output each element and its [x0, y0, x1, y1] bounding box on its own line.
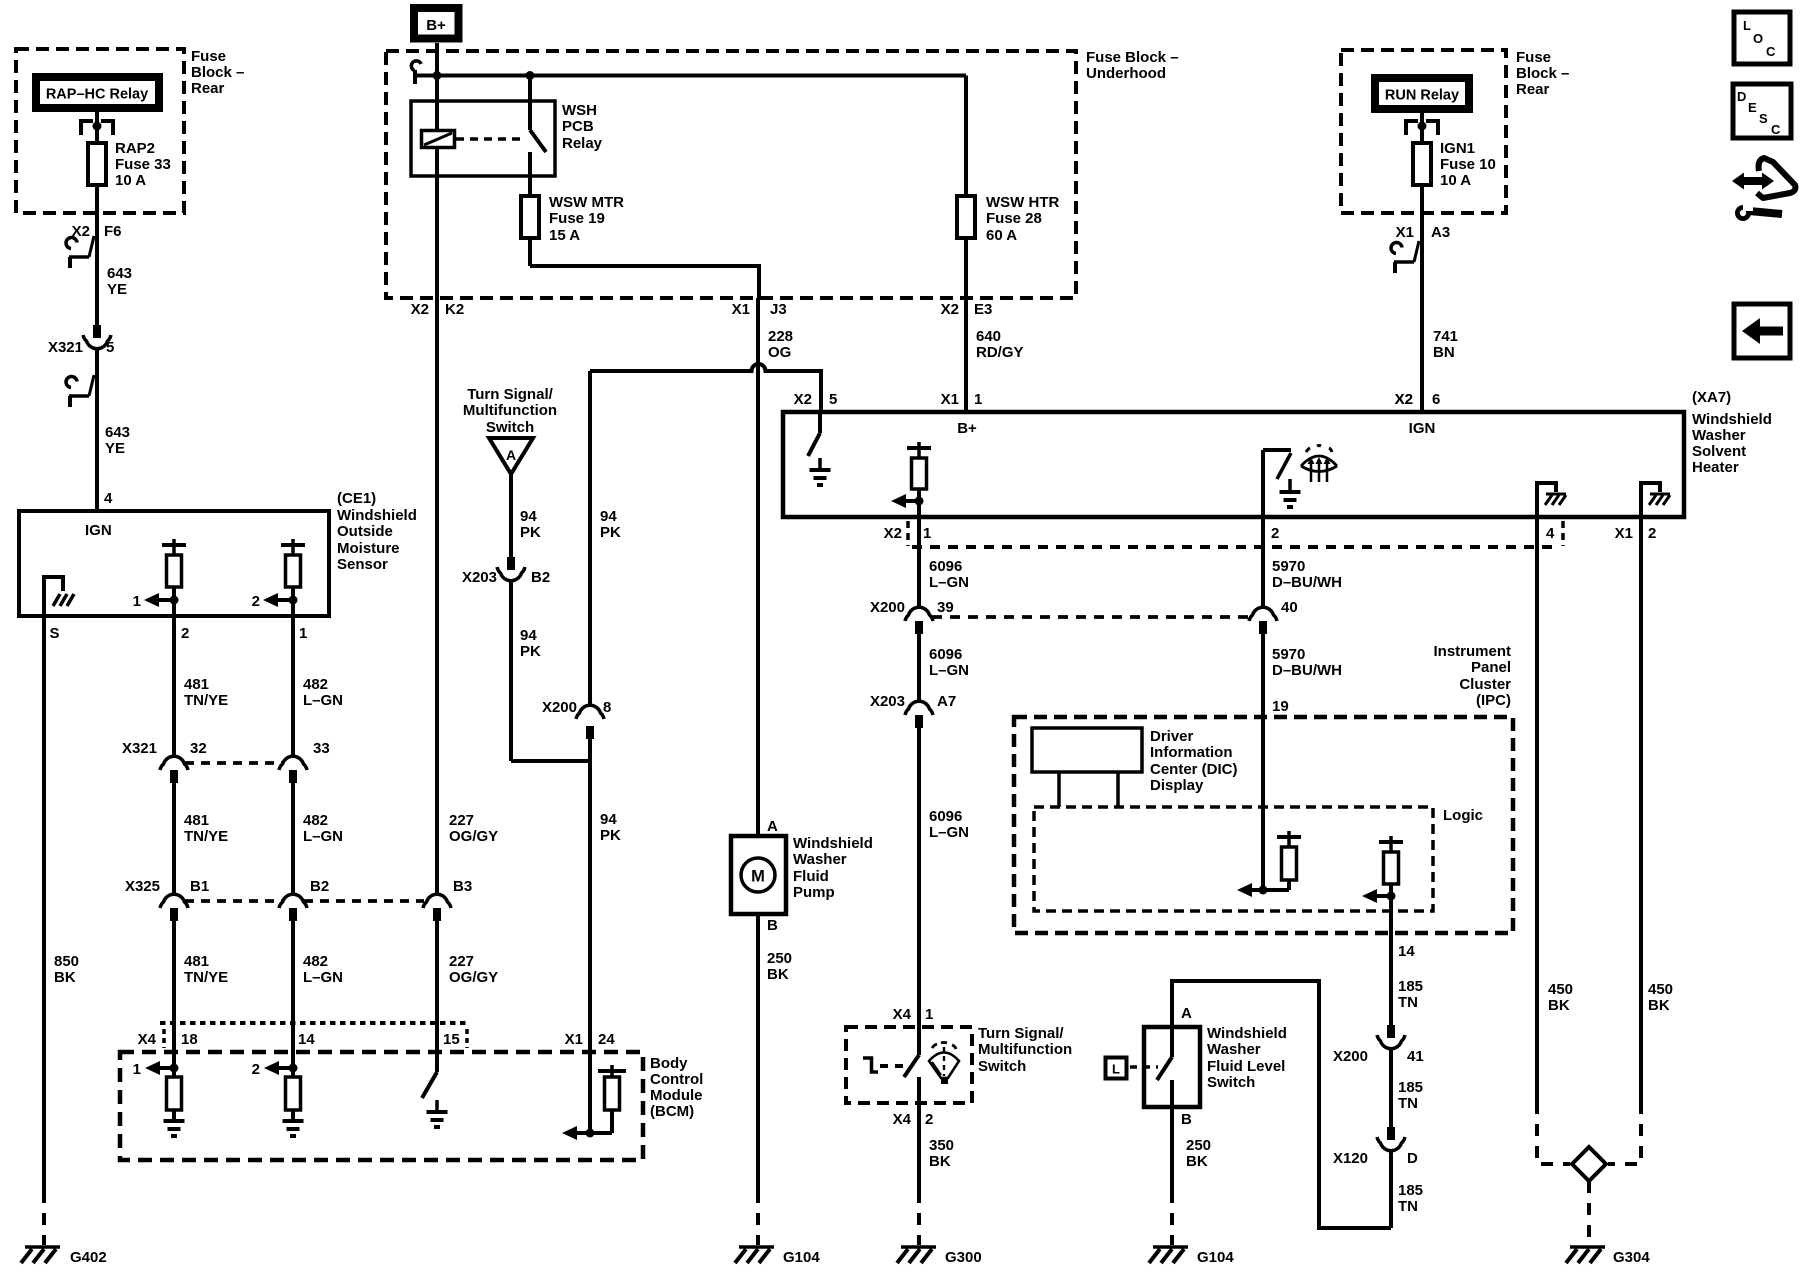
svg-text:6096: 6096 — [929, 646, 962, 663]
svg-text:S: S — [50, 625, 60, 642]
svg-text:J3: J3 — [770, 301, 787, 318]
svg-text:10 A: 10 A — [1440, 172, 1471, 189]
svg-text:Logic: Logic — [1443, 807, 1483, 824]
svg-text:Fuse 33: Fuse 33 — [115, 156, 171, 173]
svg-text:185: 185 — [1398, 1079, 1423, 1096]
svg-text:Multifunction: Multifunction — [463, 402, 557, 419]
svg-text:Turn Signal/: Turn Signal/ — [978, 1025, 1064, 1042]
svg-text:X321: X321 — [48, 339, 83, 356]
svg-text:X1: X1 — [1396, 224, 1414, 241]
svg-text:Fuse 10: Fuse 10 — [1440, 156, 1496, 173]
svg-text:L: L — [1743, 18, 1751, 33]
svg-text:Fluid: Fluid — [793, 868, 829, 885]
svg-text:B3: B3 — [453, 878, 472, 895]
svg-text:481: 481 — [184, 812, 209, 829]
svg-text:1: 1 — [133, 1061, 141, 1078]
svg-text:D–BU/WH: D–BU/WH — [1272, 574, 1342, 591]
svg-text:B: B — [1181, 1111, 1192, 1128]
svg-text:X325: X325 — [125, 878, 160, 895]
svg-text:6096: 6096 — [929, 558, 962, 575]
svg-text:L–GN: L–GN — [929, 824, 969, 841]
svg-text:Outside: Outside — [337, 523, 393, 540]
svg-text:A3: A3 — [1431, 224, 1450, 241]
svg-text:IGN: IGN — [1409, 420, 1436, 437]
svg-text:WSW MTR: WSW MTR — [549, 194, 624, 211]
svg-text:(IPC): (IPC) — [1476, 692, 1511, 709]
svg-text:(BCM): (BCM) — [650, 1103, 694, 1120]
svg-text:BK: BK — [767, 966, 789, 983]
svg-text:8: 8 — [603, 699, 611, 716]
svg-text:L–GN: L–GN — [303, 969, 343, 986]
svg-text:640: 640 — [976, 328, 1001, 345]
svg-text:350: 350 — [929, 1137, 954, 1154]
svg-text:A7: A7 — [937, 693, 956, 710]
svg-text:Fluid Level: Fluid Level — [1207, 1058, 1285, 1075]
svg-text:94: 94 — [520, 627, 537, 644]
svg-text:X1: X1 — [732, 301, 750, 318]
svg-text:5970: 5970 — [1272, 646, 1305, 663]
svg-text:L–GN: L–GN — [929, 574, 969, 591]
svg-text:K2: K2 — [445, 301, 464, 318]
svg-text:1: 1 — [133, 593, 141, 610]
svg-text:O: O — [1753, 31, 1763, 46]
svg-text:M: M — [751, 868, 765, 886]
svg-text:94: 94 — [520, 508, 537, 525]
svg-text:RD/GY: RD/GY — [976, 344, 1024, 361]
svg-text:TN/YE: TN/YE — [184, 692, 228, 709]
svg-text:Multifunction: Multifunction — [978, 1041, 1072, 1058]
svg-text:G304: G304 — [1613, 1249, 1650, 1266]
svg-text:2: 2 — [1648, 525, 1656, 542]
svg-text:X2: X2 — [794, 391, 812, 408]
svg-text:643: 643 — [107, 265, 132, 282]
svg-text:32: 32 — [190, 740, 207, 757]
svg-text:Control: Control — [650, 1071, 703, 1088]
svg-text:481: 481 — [184, 676, 209, 693]
svg-text:D–BU/WH: D–BU/WH — [1272, 662, 1342, 679]
svg-text:BN: BN — [1433, 344, 1455, 361]
svg-text:Rear: Rear — [1516, 81, 1550, 98]
svg-text:185: 185 — [1398, 978, 1423, 995]
svg-text:A: A — [1181, 1005, 1192, 1022]
svg-text:Windshield: Windshield — [1207, 1025, 1287, 1042]
svg-text:YE: YE — [105, 440, 125, 457]
svg-text:5: 5 — [106, 339, 114, 356]
svg-text:Block –: Block – — [191, 64, 244, 81]
svg-text:IGN: IGN — [85, 522, 112, 539]
svg-text:X4: X4 — [893, 1111, 912, 1128]
svg-text:BK: BK — [1548, 997, 1570, 1014]
svg-text:TN/YE: TN/YE — [184, 969, 228, 986]
svg-text:L–GN: L–GN — [303, 692, 343, 709]
svg-text:PCB: PCB — [562, 118, 594, 135]
svg-text:Sensor: Sensor — [337, 556, 388, 573]
svg-text:G104: G104 — [1197, 1249, 1234, 1266]
svg-text:L: L — [1112, 1062, 1120, 1077]
svg-text:A: A — [506, 447, 516, 463]
svg-text:94: 94 — [600, 508, 617, 525]
svg-text:Rear: Rear — [191, 80, 225, 97]
svg-text:S: S — [1759, 111, 1768, 126]
svg-text:Block –: Block – — [1516, 65, 1569, 82]
svg-text:OG/GY: OG/GY — [449, 969, 498, 986]
svg-text:Windshield: Windshield — [793, 835, 873, 852]
svg-text:2: 2 — [181, 625, 189, 642]
svg-text:15: 15 — [443, 1031, 460, 1048]
svg-text:33: 33 — [313, 740, 330, 757]
svg-text:250: 250 — [1186, 1137, 1211, 1154]
svg-text:X1: X1 — [565, 1031, 583, 1048]
svg-text:X4: X4 — [138, 1031, 157, 1048]
svg-text:Switch: Switch — [978, 1058, 1026, 1075]
svg-text:Driver: Driver — [1150, 728, 1194, 745]
svg-text:60 A: 60 A — [986, 227, 1017, 244]
svg-text:14: 14 — [298, 1031, 315, 1048]
svg-text:Fuse: Fuse — [1516, 49, 1551, 66]
svg-text:Panel: Panel — [1471, 659, 1511, 676]
svg-text:Center (DIC): Center (DIC) — [1150, 761, 1238, 778]
svg-text:X4: X4 — [893, 1006, 912, 1023]
svg-text:X2: X2 — [1395, 391, 1413, 408]
svg-text:X203: X203 — [462, 569, 497, 586]
svg-text:YE: YE — [107, 281, 127, 298]
svg-text:227: 227 — [449, 953, 474, 970]
svg-text:5: 5 — [829, 391, 837, 408]
svg-text:450: 450 — [1548, 981, 1573, 998]
svg-text:Fuse: Fuse — [191, 48, 226, 65]
svg-text:X1: X1 — [1615, 525, 1633, 542]
svg-text:X120: X120 — [1333, 1150, 1368, 1167]
svg-text:X200: X200 — [542, 699, 577, 716]
svg-text:D: D — [1407, 1150, 1418, 1167]
svg-text:Washer: Washer — [793, 851, 847, 868]
svg-text:Switch: Switch — [486, 419, 534, 436]
svg-text:G104: G104 — [783, 1249, 820, 1266]
svg-text:6: 6 — [1432, 391, 1440, 408]
svg-text:L–GN: L–GN — [929, 662, 969, 679]
svg-text:482: 482 — [303, 953, 328, 970]
svg-text:X2: X2 — [72, 223, 90, 240]
svg-text:450: 450 — [1648, 981, 1673, 998]
svg-text:Fuse 19: Fuse 19 — [549, 210, 605, 227]
svg-text:B: B — [767, 917, 778, 934]
svg-text:Body: Body — [650, 1055, 688, 1072]
svg-text:Fuse 28: Fuse 28 — [986, 210, 1042, 227]
svg-text:39: 39 — [937, 599, 954, 616]
svg-text:1: 1 — [974, 391, 982, 408]
svg-text:Washer: Washer — [1207, 1041, 1261, 1058]
svg-text:Heater: Heater — [1692, 459, 1739, 476]
svg-text:228: 228 — [768, 328, 793, 345]
svg-text:WSH: WSH — [562, 102, 597, 119]
svg-text:Relay: Relay — [562, 135, 603, 152]
svg-text:1: 1 — [923, 525, 931, 542]
svg-text:Windshield: Windshield — [337, 507, 417, 524]
svg-text:PK: PK — [520, 643, 541, 660]
svg-text:4: 4 — [104, 490, 113, 507]
svg-text:482: 482 — [303, 812, 328, 829]
svg-text:B1: B1 — [190, 878, 209, 895]
svg-text:B+: B+ — [426, 17, 446, 34]
svg-text:Turn Signal/: Turn Signal/ — [467, 386, 553, 403]
svg-text:2: 2 — [252, 1061, 260, 1078]
svg-text:E3: E3 — [974, 301, 992, 318]
svg-text:G300: G300 — [945, 1249, 982, 1266]
svg-text:Moisture: Moisture — [337, 540, 400, 557]
svg-text:10 A: 10 A — [115, 172, 146, 189]
svg-text:OG: OG — [768, 344, 791, 361]
svg-text:(XA7): (XA7) — [1692, 389, 1731, 406]
svg-text:X200: X200 — [870, 599, 905, 616]
svg-text:X203: X203 — [870, 693, 905, 710]
svg-text:G402: G402 — [70, 1249, 107, 1266]
svg-text:1: 1 — [299, 625, 307, 642]
svg-text:X200: X200 — [1333, 1048, 1368, 1065]
svg-text:PK: PK — [600, 524, 621, 541]
svg-text:E: E — [1748, 100, 1757, 115]
svg-text:IGN1: IGN1 — [1440, 140, 1475, 157]
svg-text:TN: TN — [1398, 1198, 1418, 1215]
svg-text:850: 850 — [54, 953, 79, 970]
svg-text:94: 94 — [600, 811, 617, 828]
svg-text:(CE1): (CE1) — [337, 490, 376, 507]
svg-text:BK: BK — [1186, 1153, 1208, 1170]
svg-text:B2: B2 — [310, 878, 329, 895]
svg-text:RAP2: RAP2 — [115, 140, 155, 157]
svg-text:BK: BK — [929, 1153, 951, 1170]
svg-text:C: C — [1766, 44, 1776, 59]
svg-text:5970: 5970 — [1272, 558, 1305, 575]
svg-text:481: 481 — [184, 953, 209, 970]
svg-text:X2: X2 — [884, 525, 902, 542]
svg-text:X321: X321 — [122, 740, 157, 757]
svg-text:BK: BK — [54, 969, 76, 986]
svg-text:1: 1 — [925, 1006, 933, 1023]
svg-text:TN: TN — [1398, 994, 1418, 1011]
svg-text:40: 40 — [1281, 599, 1298, 616]
svg-text:19: 19 — [1272, 698, 1289, 715]
svg-text:X2: X2 — [411, 301, 429, 318]
svg-text:482: 482 — [303, 676, 328, 693]
svg-text:15 A: 15 A — [549, 227, 580, 244]
svg-text:185: 185 — [1398, 1182, 1423, 1199]
svg-text:41: 41 — [1407, 1048, 1424, 1065]
svg-text:OG/GY: OG/GY — [449, 828, 498, 845]
svg-text:Solvent: Solvent — [1692, 443, 1746, 460]
svg-text:6096: 6096 — [929, 808, 962, 825]
svg-text:B+: B+ — [957, 420, 977, 437]
svg-text:L–GN: L–GN — [303, 828, 343, 845]
svg-text:Washer: Washer — [1692, 427, 1746, 444]
svg-text:2: 2 — [252, 593, 260, 610]
svg-text:BK: BK — [1648, 997, 1670, 1014]
svg-text:WSW HTR: WSW HTR — [986, 194, 1059, 211]
svg-text:2: 2 — [925, 1111, 933, 1128]
svg-text:Cluster: Cluster — [1459, 676, 1511, 693]
svg-text:Display: Display — [1150, 777, 1204, 794]
svg-text:TN: TN — [1398, 1095, 1418, 1112]
svg-text:Windshield: Windshield — [1692, 411, 1772, 428]
svg-text:F6: F6 — [104, 223, 122, 240]
svg-text:14: 14 — [1398, 943, 1415, 960]
svg-text:B2: B2 — [531, 569, 550, 586]
svg-text:Instrument: Instrument — [1433, 643, 1511, 660]
svg-text:24: 24 — [598, 1031, 615, 1048]
svg-text:C: C — [1771, 122, 1781, 137]
svg-text:PK: PK — [600, 827, 621, 844]
svg-text:Pump: Pump — [793, 884, 835, 901]
svg-text:RAP–HC Relay: RAP–HC Relay — [46, 87, 148, 103]
svg-text:TN/YE: TN/YE — [184, 828, 228, 845]
svg-text:Information: Information — [1150, 744, 1233, 761]
svg-text:D: D — [1737, 89, 1746, 104]
svg-text:2: 2 — [1271, 525, 1279, 542]
svg-text:Switch: Switch — [1207, 1074, 1255, 1091]
svg-text:18: 18 — [181, 1031, 198, 1048]
svg-text:X1: X1 — [941, 391, 959, 408]
svg-text:741: 741 — [1433, 328, 1458, 345]
svg-text:250: 250 — [767, 950, 792, 967]
svg-text:Underhood: Underhood — [1086, 65, 1166, 82]
svg-text:Fuse Block –: Fuse Block – — [1086, 49, 1179, 66]
svg-text:PK: PK — [520, 524, 541, 541]
svg-text:643: 643 — [105, 424, 130, 441]
svg-text:A: A — [767, 818, 778, 835]
svg-text:RUN Relay: RUN Relay — [1385, 88, 1459, 104]
svg-text:227: 227 — [449, 812, 474, 829]
svg-text:Module: Module — [650, 1087, 703, 1104]
svg-text:X2: X2 — [941, 301, 959, 318]
svg-text:4: 4 — [1546, 525, 1555, 542]
